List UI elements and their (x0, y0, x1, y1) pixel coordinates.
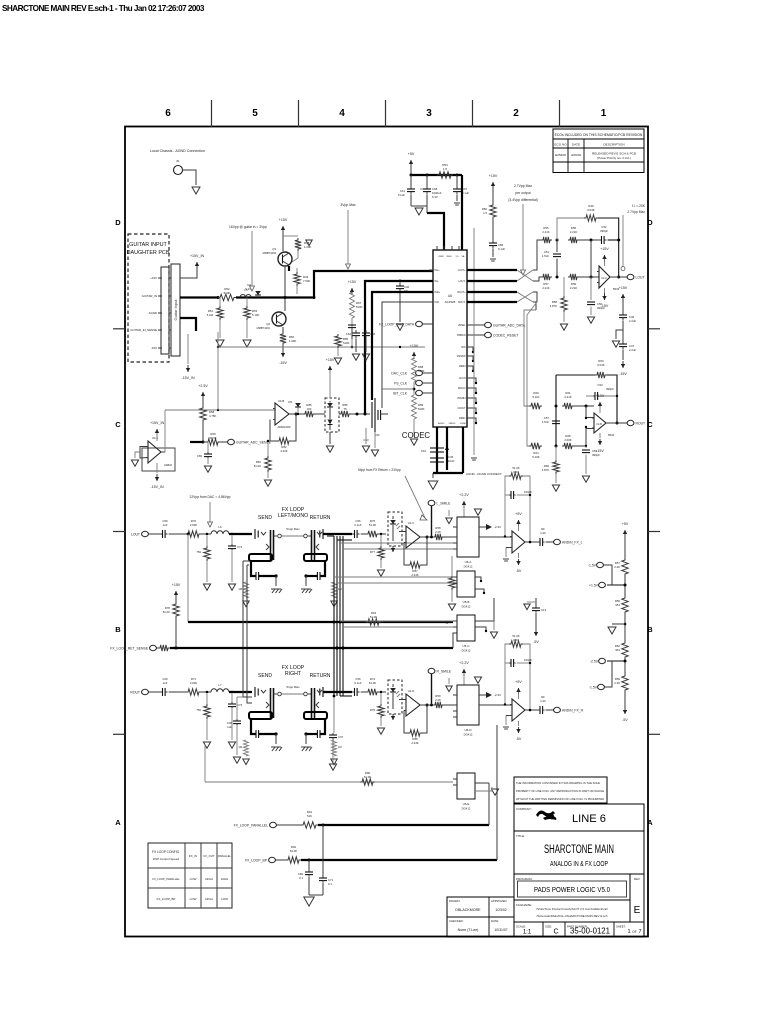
svg-text:750: 750 (196, 708, 201, 712)
svg-text:U2-B: U2-B (596, 423, 602, 426)
wire bus drop (217, 332, 219, 347)
ground (491, 789, 498, 795)
svg-text:GUITAR_IN_SENSE: GUITAR_IN_SENSE (130, 328, 157, 332)
svg-text:SHARCTONE MAIN REV E.sch-1 - T: SHARCTONE MAIN REV E.sch-1 - Thu Jan 02 … (2, 4, 205, 13)
svg-text:-5V: -5V (622, 718, 628, 722)
ground (396, 324, 403, 330)
junction (556, 239, 559, 242)
svg-text:C66: C66 (370, 332, 376, 336)
wire output (525, 541, 538, 543)
capacitor C46 (622, 302, 624, 312)
svg-text:VDSEL: VDSEL (458, 325, 466, 327)
svg-text:NF: NF (541, 527, 545, 531)
wire switch out (479, 536, 512, 538)
svg-text:1: 1 (627, 929, 630, 935)
svg-text:51.0K: 51.0K (369, 523, 376, 527)
svg-text:+15V: +15V (596, 394, 605, 398)
svg-text:C72: C72 (237, 545, 243, 549)
svg-text:-5V: -5V (516, 737, 522, 741)
wire bias to plate (381, 388, 414, 390)
ground (616, 330, 623, 339)
svg-text:FX_OUT: FX_OUT (203, 854, 214, 858)
wire (411, 205, 427, 207)
transistor Q2 (272, 312, 286, 326)
op-amp U1-D2 (512, 699, 525, 721)
svg-text:750: 750 (196, 550, 201, 554)
feedback network opamp2 (505, 476, 509, 537)
svg-text:WITHOUT THE WRITTEN PERMISSION: WITHOUT THE WRITTEN PERMISSION OF LINE 6… (516, 797, 604, 801)
svg-text:E: E (634, 905, 641, 916)
wire (574, 405, 594, 407)
power -15V (392, 714, 394, 720)
svg-text:(Power Priority rev. 2 incl.): (Power Priority rev. 2 incl.) (597, 156, 631, 160)
resistor feedback 51K (509, 473, 523, 479)
svg-text:4: 4 (339, 108, 345, 119)
inductor L7 (211, 689, 229, 692)
svg-text:LOW: LOW (190, 877, 197, 881)
svg-text:+15V: +15V (150, 276, 157, 280)
capacitor C68 (426, 175, 428, 186)
svg-text:2: 2 (513, 108, 519, 119)
inductor L6 (211, 531, 229, 534)
svg-text:SHEET:: SHEET: (616, 925, 626, 929)
svg-text:R75: R75 (370, 708, 376, 712)
capacitor C45 (430, 457, 444, 459)
svg-text:HIGH: HIGH (221, 877, 229, 881)
svg-text:CLKIN: CLKIN (459, 378, 466, 380)
svg-text:U5-A: U5-A (465, 560, 472, 564)
wire ROUT+ (467, 291, 517, 293)
wire (598, 218, 619, 277)
power -5V (518, 721, 520, 726)
ground (352, 354, 359, 360)
svg-text:RIGHT: RIGHT (285, 671, 302, 677)
svg-text:51.0K: 51.0K (290, 849, 297, 853)
ground (228, 584, 235, 590)
svg-text:C53: C53 (597, 383, 603, 387)
ground (135, 452, 140, 458)
svg-text:5: 5 (252, 108, 258, 119)
svg-text:1/23/02: 1/23/02 (495, 908, 506, 912)
svg-text:1.5nF: 1.5nF (542, 254, 549, 258)
wire (329, 432, 331, 444)
resistor R59A (568, 274, 579, 280)
svg-text:VREF: VREF (446, 256, 452, 258)
svg-text:C64: C64 (346, 332, 352, 336)
svg-text:+15V: +15V (348, 280, 357, 284)
ground (432, 473, 434, 478)
svg-text:U2-A: U2-A (601, 277, 607, 280)
wire to codec INL- (365, 281, 433, 414)
svg-text:+15V: +15V (326, 358, 335, 362)
capacitor C44 (430, 447, 444, 449)
ground (362, 354, 369, 360)
wire (201, 533, 211, 535)
codec U6 AK4528 body (433, 250, 467, 427)
svg-text:DAUGHTER PCB: DAUGHTER PCB (127, 250, 170, 256)
svg-text:1uF: 1uF (227, 725, 232, 729)
wire guitar_in (180, 296, 218, 298)
svg-text:1M: 1M (338, 745, 342, 749)
power -15V (599, 433, 601, 438)
svg-text:1M: 1M (238, 745, 242, 749)
svg-text:FX_LOOP_PARALLEL: FX_LOOP_PARALLEL (234, 823, 269, 827)
fx bus to U5-B wires (334, 576, 453, 578)
svg-text:390pF: 390pF (597, 306, 605, 310)
svg-text:BIT_CLK: BIT_CLK (393, 391, 407, 395)
resistor R50 (282, 327, 284, 332)
pad ROUT (142, 689, 149, 694)
inductor L5 (240, 295, 251, 298)
pad R_SMILE (428, 668, 435, 673)
svg-text:Guitar Input: Guitar Input (173, 299, 178, 321)
svg-text:1.5: 1.5 (483, 211, 487, 215)
svg-text:AGND: AGND (438, 422, 445, 425)
power +5V ladder (624, 530, 626, 537)
svg-text:2.21K: 2.21K (570, 230, 577, 234)
codec left input pins (429, 269, 433, 271)
wire (399, 699, 406, 701)
capacitor shunt (231, 536, 233, 544)
pad LOUT (627, 274, 634, 279)
resistor R76 (366, 531, 379, 537)
resistor R53 (246, 298, 248, 307)
ladder tap pad -1.5V (597, 562, 604, 567)
svg-text:C: C (647, 420, 653, 429)
svg-text:INR+: INR+ (435, 291, 441, 294)
svg-text:2.7Vpp Max: 2.7Vpp Max (514, 184, 532, 188)
wire codec dgnd (462, 427, 464, 473)
svg-text:NF: NF (541, 695, 545, 699)
svg-text:5.11K: 5.11K (532, 395, 539, 399)
wire transistor stack (284, 267, 286, 311)
power +15V (604, 255, 606, 262)
svg-text:U1-D: U1-D (408, 689, 415, 693)
svg-text:961: 961 (615, 648, 620, 652)
pad L_SMILE (428, 500, 435, 505)
svg-text:+15V_IN: +15V_IN (150, 421, 164, 425)
svg-text:22Vpp from DAC = 4.86Vpp: 22Vpp from DAC = 4.86Vpp (190, 495, 231, 499)
wire (149, 691, 161, 693)
power -15V_IN (187, 365, 189, 372)
svg-text:C40: C40 (540, 531, 546, 535)
svg-text:C: C (553, 929, 558, 936)
svg-text:RELEASED REV.E SCH & PCB: RELEASED REV.E SCH & PCB (592, 152, 636, 156)
page border frame (125, 127, 648, 937)
return jack plate (311, 530, 313, 560)
svg-text:2.21K: 2.21K (570, 286, 577, 290)
svg-text:FS_CLK: FS_CLK (394, 381, 408, 385)
ground (216, 340, 224, 347)
pad ROUT (627, 420, 634, 425)
capacitor feedback (505, 662, 509, 664)
svg-text:INL+: INL+ (435, 269, 441, 272)
svg-text:M/S: M/S (461, 347, 466, 349)
svg-text:-2.5V: -2.5V (590, 659, 599, 663)
op-amp U4-A (148, 441, 161, 463)
svg-text:2.2K: 2.2K (614, 565, 620, 569)
svg-text:HIGH: HIGH (205, 897, 213, 901)
resistor R74 (366, 689, 379, 695)
svg-text:4.87K: 4.87K (550, 304, 557, 308)
svg-text:DG412: DG412 (462, 807, 471, 811)
svg-text:1.00K: 1.00K (304, 245, 311, 249)
svg-text:FX_LOOP_PARALLEL: FX_LOOP_PARALLEL (152, 877, 180, 881)
guitar input daughter pcb dashed box (128, 234, 169, 362)
resistor R59 (433, 702, 444, 708)
wire to U5-E (205, 781, 453, 783)
svg-text:1:1: 1:1 (523, 930, 532, 936)
capacitor send shield (255, 730, 257, 738)
svg-text:VREF2: VREF2 (448, 423, 456, 425)
svg-text:+2.2V: +2.2V (459, 661, 469, 665)
svg-text:MMBT4401: MMBT4401 (257, 326, 271, 330)
title block disclaimer box (514, 777, 607, 803)
analog switch U5-E (457, 773, 475, 799)
svg-text:4.22K: 4.22K (280, 449, 287, 453)
power +2.2V (463, 669, 465, 676)
svg-text:DESCRIPTION: DESCRIPTION (603, 143, 624, 147)
wire (381, 413, 388, 415)
svg-text:+15V_IN: +15V_IN (190, 254, 204, 258)
svg-text:CODEC_RESET: CODEC_RESET (493, 333, 518, 337)
resistor R57A (541, 274, 552, 280)
svg-text:+15V: +15V (489, 174, 498, 178)
op-amp U1-D (406, 694, 420, 716)
wire bypass drop (187, 533, 190, 536)
ground (377, 728, 384, 734)
svg-text:ECO NO: ECO NO (554, 143, 567, 147)
ground (331, 759, 337, 765)
off-page arrow -2.2V (486, 524, 492, 530)
svg-text:54pp from FX Return = 23Vpp: 54pp from FX Return = 23Vpp (358, 468, 401, 472)
svg-text:-2.2V: -2.2V (494, 525, 501, 529)
power +15V (175, 591, 177, 598)
svg-text:THE INFORMATION CONTAINED IN T: THE INFORMATION CONTAINED IN THIS DRAWIN… (516, 781, 600, 785)
svg-text:+15V: +15V (619, 286, 628, 290)
resistor R52L (622, 641, 628, 659)
svg-text:51.0K: 51.0K (512, 634, 519, 638)
wire (579, 276, 599, 278)
svg-text:GUITAR_IN: GUITAR_IN (142, 294, 157, 298)
power -15V (604, 288, 606, 293)
svg-text:51.0K: 51.0K (209, 436, 216, 440)
capacitor C36 (237, 696, 243, 698)
capacitor C47t (348, 324, 356, 326)
resistor R89 (412, 395, 417, 419)
svg-text:5.10K: 5.10K (532, 455, 539, 459)
capacitor C60 (160, 691, 163, 693)
title block title box (514, 831, 644, 874)
signal ground (471, 457, 477, 459)
signal ground (454, 202, 460, 204)
title block program box (514, 874, 630, 900)
ground (331, 601, 337, 607)
wire output (420, 536, 433, 538)
chassis ground (305, 576, 307, 586)
svg-text:Q2: Q2 (266, 322, 270, 326)
resistor R54 (437, 172, 453, 178)
pad FX_LOOP_BP (269, 857, 276, 862)
resistor R70 (186, 531, 201, 537)
svg-text:16Vpp @ guitar in = 3Vpp: 16Vpp @ guitar in = 3Vpp (229, 225, 267, 229)
svg-text:C73: C73 (237, 703, 243, 707)
send jack plate (270, 688, 272, 718)
ground (582, 476, 589, 482)
resistor R58A (563, 277, 565, 296)
svg-text:PARALLEL: PARALLEL (218, 854, 232, 858)
capacitor C69 (308, 860, 310, 870)
ground (264, 480, 271, 486)
return jack tip circle (304, 692, 308, 696)
svg-text:ANALOG IN & FX LOOP: ANALOG IN & FX LOOP (550, 861, 608, 868)
ground (560, 324, 567, 330)
non-inverting ref (505, 548, 507, 558)
power +15V_IN (156, 429, 158, 436)
svg-text:FILENAME:: FILENAME: (516, 903, 532, 907)
resistor R48 (283, 235, 298, 237)
svg-text:51K: 51K (307, 814, 312, 818)
svg-text:#1: #1 (176, 159, 180, 163)
svg-text:0.1uF: 0.1uF (498, 247, 505, 251)
svg-text:ECOs INCLUDED ON THIS SCHEMATI: ECOs INCLUDED ON THIS SCHEMATIC/PCB REVI… (555, 133, 643, 137)
power -15V (282, 348, 284, 357)
wire output (606, 422, 627, 424)
capacitor C85 (492, 240, 494, 243)
capacitor C62 (377, 410, 379, 420)
svg-text:6.3V: 6.3V (432, 195, 438, 199)
svg-text:6: 6 (165, 108, 171, 119)
svg-text:7: 7 (638, 929, 641, 935)
op-amp U2-B (594, 413, 606, 433)
wire (351, 413, 370, 415)
fx bus to U5-A wires (340, 542, 453, 544)
svg-text:D5: D5 (288, 400, 292, 404)
wire (149, 533, 161, 535)
wire drop from fx right (204, 744, 206, 782)
ladder ground tap (612, 623, 625, 625)
svg-text:+5V: +5V (622, 522, 629, 526)
svg-text:2.00K: 2.00K (190, 523, 197, 527)
svg-text:I2S/DSP: I2S/DSP (457, 356, 466, 358)
svg-text:R63: R63 (513, 638, 519, 642)
svg-text:+2.5V: +2.5V (198, 384, 208, 388)
wire fx_loop_bp run (301, 859, 497, 861)
adc input network plate (371, 402, 373, 428)
svg-text:U5-E: U5-E (463, 802, 470, 806)
svg-text:+5V: +5V (515, 512, 522, 516)
svg-text:D: D (115, 218, 121, 227)
resistor R51 (219, 298, 221, 307)
svg-text:-15V: -15V (151, 346, 157, 350)
svg-text:f.l. = 20K: f.l. = 20K (632, 204, 646, 208)
power +15V bias (413, 352, 415, 359)
svg-text:0.1: 0.1 (328, 882, 332, 886)
resistor R71 (186, 689, 201, 695)
svg-text:PADS POWER LOGIC V5.0: PADS POWER LOGIC V5.0 (534, 887, 610, 894)
svg-text:75: 75 (343, 407, 347, 411)
svg-text:C37: C37 (338, 735, 344, 739)
wire (399, 531, 406, 533)
svg-text:U1-C: U1-C (408, 521, 415, 525)
resistor R49A (584, 215, 598, 221)
svg-text:2.2uF: 2.2uF (629, 348, 636, 352)
svg-text:DBLACKMORE: DBLACKMORE (455, 908, 481, 912)
send jack plate (270, 530, 272, 560)
ground (448, 604, 455, 610)
svg-text:510K: 510K (224, 291, 231, 295)
svg-text:/Schematic/Main/R.E.1/SHARCTON: /Schematic/Main/R.E.1/SHARCTONE MAIN REV… (536, 914, 607, 918)
svg-text:51.0K: 51.0K (364, 775, 371, 779)
svg-text:VD: VD (455, 256, 458, 258)
capacitor C51 (556, 240, 558, 252)
svg-text:FX_LOOP_BP: FX_LOOP_BP (245, 858, 268, 862)
svg-text:390pF: 390pF (600, 229, 608, 233)
svg-text:4/26/02: 4/26/02 (571, 153, 582, 157)
op-amp U1-C2 (512, 531, 525, 553)
return jack shield loop (304, 554, 327, 561)
ground (233, 757, 240, 763)
svg-text:DEM0: DEM0 (459, 366, 466, 368)
wire ground tie (433, 472, 463, 474)
wire vertical net (473, 228, 475, 455)
ground (374, 432, 376, 448)
svg-text:(3.4Vpp differential): (3.4Vpp differential) (508, 198, 538, 202)
fx loop config table (148, 843, 232, 908)
wire to opamp (574, 429, 594, 447)
op-amp U4-A package box (142, 448, 175, 471)
vactrol left dashed box (388, 512, 402, 546)
return jack switch contacts (319, 689, 321, 696)
svg-text:510K: 510K (418, 369, 425, 373)
send jack tip circle (274, 535, 278, 537)
svg-text:U6: U6 (448, 294, 452, 298)
bleed resistor send (244, 740, 249, 756)
resistor R50L (622, 596, 628, 614)
wire to codec INR+ (372, 292, 433, 400)
wire -15V_IN drop (187, 334, 189, 364)
wire output (525, 709, 538, 711)
capacitor C50 (590, 277, 592, 300)
wire ROUT- (467, 301, 517, 303)
svg-text:B: B (647, 625, 653, 634)
wire LOUT- (467, 280, 517, 282)
decoupling -5V stub (535, 598, 537, 606)
svg-text:AGND: AGND (149, 311, 157, 315)
wire send-return (282, 535, 304, 537)
ground (474, 677, 481, 683)
svg-text:7.50K: 7.50K (303, 279, 310, 283)
non-inverting ref (505, 716, 507, 726)
svg-text:DG412: DG412 (462, 649, 471, 653)
svg-text:+15V: +15V (172, 583, 181, 587)
svg-text:PROGRAM:: PROGRAM: (516, 877, 533, 881)
feedback wire stage A (557, 218, 584, 240)
capacitor C47 (622, 330, 624, 341)
svg-text:U5-C: U5-C (462, 644, 470, 648)
junction bias (413, 388, 416, 391)
ground (365, 428, 367, 444)
power -15V (622, 361, 624, 368)
svg-text:DGND: DGND (460, 423, 467, 425)
capacitor C67 (456, 175, 458, 186)
resistor R79 (157, 647, 159, 649)
wire to U4-B (165, 409, 275, 411)
wire connector bottom (180, 318, 196, 331)
wire output (420, 704, 433, 706)
power +15V (282, 226, 284, 235)
feedback wire stage B (556, 374, 595, 376)
